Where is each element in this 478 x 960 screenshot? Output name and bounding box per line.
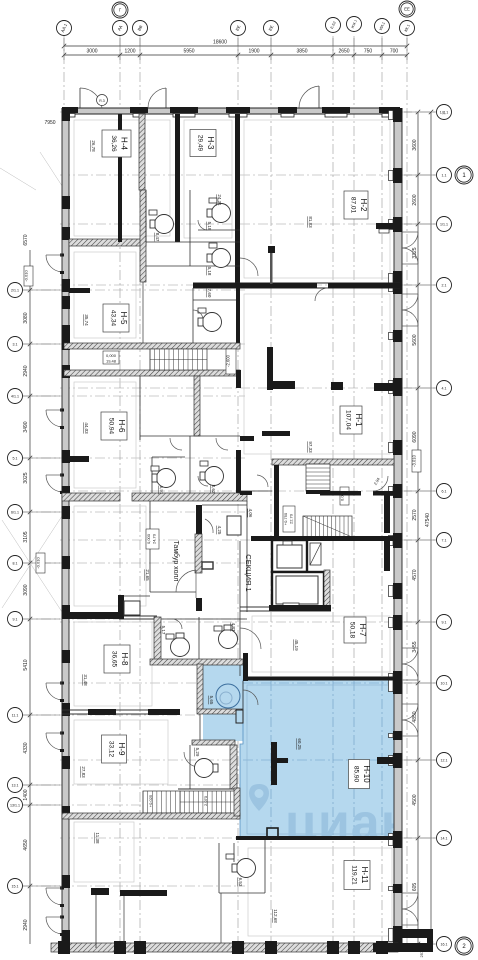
svg-text:Н-3: Н-3 <box>206 137 215 150</box>
svg-text:3455: 3455 <box>412 641 418 652</box>
svg-text:3000: 3000 <box>86 49 97 55</box>
axis circle 4/1.1 left <box>8 389 23 404</box>
hatched wall at axis BB upper <box>139 114 145 190</box>
svg-text:13/1.1: 13/1.1 <box>10 803 20 807</box>
axis circle ИИ.1 <box>375 19 390 34</box>
room H-7 label <box>344 617 366 643</box>
hatched wall right of elevators <box>324 570 330 608</box>
svg-text:13.1: 13.1 <box>12 783 19 787</box>
small storage rooms walls <box>196 505 202 534</box>
svg-text:1/1.1: 1/1.1 <box>440 222 448 226</box>
axis circle Г <box>112 2 128 18</box>
svg-text:5410: 5410 <box>23 659 29 670</box>
core door 2.94 <box>373 476 388 491</box>
left wall piers <box>62 108 71 121</box>
svg-text:97,33: 97,33 <box>308 441 313 453</box>
svg-text:26,78: 26,78 <box>91 140 96 152</box>
cian watermark pin <box>249 784 269 811</box>
shaft walls near right wall <box>384 495 390 533</box>
svg-text:8,47: 8,47 <box>155 233 160 242</box>
wall above H-8 <box>62 612 119 619</box>
svg-text:2.070: 2.070 <box>203 795 208 806</box>
toilet room 4.87 <box>219 630 238 649</box>
horizontal axis grid lines right side <box>60 112 436 944</box>
bottom exterior wall <box>51 943 398 952</box>
wall stub H-1 side <box>236 285 240 345</box>
axis circle 1/1.1 right <box>437 217 452 232</box>
bathroom row above blue walls <box>154 617 161 660</box>
svg-text:15.1: 15.1 <box>12 884 19 888</box>
svg-text:5,18: 5,18 <box>207 222 212 231</box>
room H-5 label <box>103 304 129 332</box>
axis circle АА.1 <box>57 21 72 36</box>
blue unit H-10 small bathroom part <box>203 664 243 741</box>
axis circle 4.1 right <box>437 381 452 396</box>
door arc room 8.62 <box>198 476 208 486</box>
level mark 0.000 core <box>340 487 349 505</box>
toilet room 6.91 <box>157 469 176 488</box>
svg-text:Н-11: Н-11 <box>360 867 369 884</box>
wall below mid stairs <box>64 370 240 376</box>
door frame right of blue column <box>236 710 243 723</box>
svg-text:47540: 47540 <box>425 513 431 527</box>
svg-text:СЕКЦИЯ 1: СЕКЦИЯ 1 <box>244 554 253 591</box>
svg-text:9.1: 9.1 <box>442 620 447 624</box>
svg-text:11.1: 11.1 <box>12 713 19 717</box>
top wall entrance door 2 <box>165 88 167 108</box>
svg-text:119,21: 119,21 <box>351 865 358 885</box>
svg-text:5,29: 5,29 <box>195 748 200 757</box>
hatched wall y493 <box>62 493 120 501</box>
right wall balcony door arcs <box>402 231 418 233</box>
svg-text:3.1: 3.1 <box>13 342 18 346</box>
svg-text:Н-5: Н-5 <box>119 312 128 325</box>
sanitary block walls upper <box>145 190 147 242</box>
toilet room 5.18 a <box>212 204 231 223</box>
svg-text:1/Д.1: 1/Д.1 <box>440 110 448 114</box>
blue small room door <box>243 690 258 705</box>
svg-text:Н-7: Н-7 <box>358 624 367 637</box>
core stairs upper flight <box>306 464 330 491</box>
level box 0.000 19.48 <box>103 351 119 364</box>
svg-text:Н-10: Н-10 <box>362 765 371 783</box>
stairs right hatched wall <box>234 788 240 816</box>
svg-text:6,53: 6,53 <box>238 878 243 887</box>
axis circle ВВ <box>133 21 148 36</box>
blue inset finish line <box>247 685 394 834</box>
blue unit H-10 main area <box>240 680 398 838</box>
svg-text:22.70: 22.70 <box>289 513 294 524</box>
core landing wall <box>320 491 361 496</box>
bottom left interior wall <box>95 888 97 948</box>
H-1 wall stub at axis 4.1 <box>374 383 394 391</box>
svg-text:3025: 3025 <box>23 472 29 483</box>
svg-text:4330: 4330 <box>23 742 29 753</box>
svg-text:6/1.1: 6/1.1 <box>11 510 19 514</box>
duct shaft walls in H-1 <box>267 347 273 390</box>
svg-text:5950: 5950 <box>183 49 194 55</box>
svg-text:6570: 6570 <box>23 234 29 245</box>
svg-text:12.1: 12.1 <box>441 758 448 762</box>
axis circle 8.1 left <box>8 556 23 571</box>
H-2 left wall door arc <box>240 258 258 276</box>
svg-text:-3.010: -3.010 <box>412 454 417 467</box>
axis circle 1 big <box>455 166 473 184</box>
svg-text:8.1: 8.1 <box>13 561 18 565</box>
H-11 bathroom walls <box>218 843 220 893</box>
svg-text:2570: 2570 <box>412 509 418 520</box>
right wall piers <box>393 108 403 122</box>
svg-text:36,65: 36,65 <box>111 651 118 668</box>
svg-text:2650: 2650 <box>338 49 349 55</box>
level box -0.010 b <box>36 553 45 573</box>
svg-text:5.1: 5.1 <box>13 456 18 460</box>
level mark +0.750 / 22.70 <box>283 506 295 532</box>
svg-text:6090: 6090 <box>412 431 418 442</box>
blue bottom wall / H-11 top wall <box>236 836 398 840</box>
svg-text:4,87: 4,87 <box>231 623 236 632</box>
elevator shaft 1 <box>272 540 307 572</box>
svg-text:27,83: 27,83 <box>81 766 86 778</box>
axis circle 13.1 left <box>8 778 23 793</box>
axis circle ЕЕ b <box>264 21 279 36</box>
top overall dimension line 18600 <box>64 45 407 47</box>
svg-text:31,48: 31,48 <box>83 674 88 686</box>
wall above bottom stairs <box>178 788 240 790</box>
sink room 5.18a <box>209 198 217 203</box>
axis circle 9.1 right <box>437 615 452 630</box>
door arc room 5.18a <box>198 220 208 230</box>
room H-4 label <box>102 130 131 157</box>
wall above mid stairs <box>64 343 240 349</box>
svg-text:3080: 3080 <box>23 312 29 323</box>
leader lines left margin <box>40 152 66 192</box>
blue small room right wall <box>243 653 248 681</box>
svg-text:-0.010: -0.010 <box>24 270 29 282</box>
tambour door arc lower <box>195 570 197 598</box>
mid stairs <box>150 349 207 370</box>
svg-text:85,90: 85,90 <box>353 766 360 783</box>
svg-text:1400: 1400 <box>23 789 29 800</box>
bottom right corner walls <box>398 929 433 938</box>
svg-text:3105: 3105 <box>23 531 29 542</box>
H-2 french door open leaf <box>376 223 394 229</box>
room H-3 label <box>190 130 216 157</box>
wall below H-4 <box>69 239 146 246</box>
room H-11 label <box>344 861 370 890</box>
svg-text:107,04: 107,04 <box>345 410 352 430</box>
svg-text:3850: 3850 <box>296 49 307 55</box>
axis circle 2.1 right <box>437 278 452 293</box>
sink room 8.62 <box>200 461 208 466</box>
bottom left room divider <box>123 896 125 943</box>
axis circle 3.1 left <box>8 337 23 352</box>
svg-text:2940: 2940 <box>23 365 29 376</box>
axis circle 1/Д.1 right <box>437 105 452 120</box>
svg-text:5600: 5600 <box>412 334 418 345</box>
corridor door to stair hall <box>257 475 268 487</box>
room H-6 label <box>101 412 127 440</box>
svg-text:3490: 3490 <box>23 421 29 432</box>
H-8 H-9 partition <box>62 709 180 711</box>
wall at axis AA vertical <box>118 114 122 242</box>
corridor wall door arc <box>315 288 328 301</box>
room H-2 label <box>344 191 368 219</box>
wall below stair core <box>251 536 400 541</box>
hatched wall above blue small room <box>150 659 243 665</box>
door arc room 5.17 <box>172 619 182 629</box>
svg-text:24,31: 24,31 <box>217 194 222 206</box>
svg-text:33,12: 33,12 <box>108 741 115 758</box>
svg-text:6.1: 6.1 <box>442 489 447 493</box>
svg-text:750: 750 <box>364 49 373 55</box>
svg-text:3090: 3090 <box>23 584 29 595</box>
corridor wall below elevators <box>240 606 331 608</box>
svg-text:Н-2: Н-2 <box>359 199 368 212</box>
left exterior wall <box>62 108 69 948</box>
axis circle 10.1 right <box>437 676 452 691</box>
axis circle 7.1 right <box>437 533 452 548</box>
storage door box <box>227 516 241 535</box>
room H-1 label <box>340 406 362 434</box>
T wall inside blue <box>271 742 277 785</box>
corridor left wall x240 <box>239 541 241 676</box>
svg-text:+0.750: +0.750 <box>283 512 288 525</box>
svg-text:-0.010: -0.010 <box>36 557 41 569</box>
axis circle 14.1 right <box>437 831 452 846</box>
svg-text:3325: 3325 <box>412 247 418 258</box>
axis circle ЕБ2 <box>326 18 341 33</box>
stair core hatched wall <box>272 459 394 465</box>
room H-10 label <box>349 760 370 789</box>
elevator door panel <box>310 543 321 565</box>
svg-text:1200: 1200 <box>124 49 135 55</box>
axis circle 15.1 left <box>8 879 23 894</box>
svg-text:21,65: 21,65 <box>145 569 150 581</box>
sink room 5.18b <box>209 243 217 248</box>
svg-text:7950: 7950 <box>44 120 55 126</box>
svg-text:3600: 3600 <box>412 139 418 150</box>
wall below bottom stairs <box>62 813 240 819</box>
svg-text:10.1: 10.1 <box>441 681 448 685</box>
sink room 6.53 <box>226 854 234 859</box>
svg-text:81,83: 81,83 <box>308 216 313 228</box>
left dimension line <box>29 250 31 944</box>
axis circle 9.1 left <box>8 612 23 627</box>
svg-text:Н-1: Н-1 <box>354 414 363 427</box>
svg-text:Н-4: Н-4 <box>120 137 129 150</box>
room H-8 label <box>104 645 130 673</box>
column circle R <box>97 95 108 106</box>
right exterior wall <box>394 108 402 944</box>
axis circle 11.1 left <box>8 708 23 723</box>
toilet room 5.17 <box>171 638 190 657</box>
corridor wall x197 upper <box>194 376 200 436</box>
svg-text:29,49: 29,49 <box>197 135 204 152</box>
call button box <box>202 562 213 569</box>
bathroom cluster walls <box>139 376 141 440</box>
svg-text:4500: 4500 <box>412 794 418 805</box>
sink room 4.87 <box>214 626 222 631</box>
toilet room 8.47 <box>155 215 174 234</box>
axis circle ЕЕ a <box>231 21 246 36</box>
sink room 6.91 <box>151 466 159 471</box>
svg-text:2600: 2600 <box>412 194 418 205</box>
svg-text:24,70: 24,70 <box>152 533 157 544</box>
svg-text:44,03: 44,03 <box>84 422 89 434</box>
bathroom door arcs <box>170 438 182 450</box>
svg-text:60,25: 60,25 <box>297 738 302 750</box>
corridor wall left stub <box>69 288 90 293</box>
level box 0.000 24.70 <box>146 529 159 549</box>
room finish inset outlines <box>74 120 392 936</box>
closet door box <box>124 601 140 615</box>
tambour hall walls <box>149 501 151 592</box>
axis circle 5.1 left <box>8 451 23 466</box>
svg-text:ЕЕ: ЕЕ <box>404 7 410 12</box>
top wall piers <box>62 107 78 113</box>
svg-text:1900: 1900 <box>248 49 259 55</box>
svg-text:19,48: 19,48 <box>106 359 117 364</box>
column in H-1 <box>331 382 343 390</box>
svg-text:2.1: 2.1 <box>442 283 447 287</box>
svg-text:7,60: 7,60 <box>207 289 212 298</box>
wall x238 mid segment <box>236 450 241 501</box>
svg-text:4/1.1: 4/1.1 <box>11 394 19 398</box>
top wall entrance door 3 <box>318 86 320 108</box>
svg-text:2940: 2940 <box>23 919 29 930</box>
axis circle 12.1 right <box>437 753 452 768</box>
axis circle 16.1 right <box>437 937 452 952</box>
axis circle 2 big <box>455 937 473 955</box>
svg-text:Н-9: Н-9 <box>117 743 126 756</box>
toilet blue room 5.65 <box>216 684 240 708</box>
svg-text:4,25: 4,25 <box>217 526 222 535</box>
left wall balcony door arcs <box>60 254 64 257</box>
svg-text:4570: 4570 <box>412 569 418 580</box>
svg-text:700: 700 <box>390 49 399 55</box>
sink room 7.60 <box>198 308 206 313</box>
svg-text:11,38: 11,38 <box>95 833 100 844</box>
svg-text:Н-8: Н-8 <box>120 653 129 666</box>
svg-text:87,01: 87,01 <box>350 197 357 214</box>
level mark -2.600 <box>226 349 236 374</box>
axis circle 6.1 right <box>437 484 452 499</box>
bottom wall piers <box>58 941 70 954</box>
horizontal axis grid lines left side <box>23 290 245 886</box>
svg-text:Тамбур холл: Тамбур холл <box>172 540 180 581</box>
toilet room 5.18 b <box>212 249 231 268</box>
svg-text:8,62: 8,62 <box>211 485 216 494</box>
sink room 8.47 <box>149 210 157 215</box>
svg-text:112,68: 112,68 <box>273 909 278 923</box>
core stairs lower flight <box>303 516 352 537</box>
vertical axis grid lines <box>64 36 407 952</box>
svg-text:7.1: 7.1 <box>442 538 447 542</box>
top dimension line <box>64 54 407 56</box>
corridor stub to core <box>240 436 254 441</box>
corridor door to H-7 <box>240 628 261 649</box>
blue top wall <box>248 677 398 681</box>
blue small room left wall <box>197 664 203 710</box>
svg-text:1.1: 1.1 <box>442 173 447 177</box>
svg-text:18600: 18600 <box>213 40 227 46</box>
sanitary block left hatched wall <box>140 190 146 282</box>
closet wall at axis AA <box>118 595 124 619</box>
hall wall y491 <box>240 490 272 492</box>
svg-text:R.3: R.3 <box>99 99 105 103</box>
toilet room 7.60 <box>203 313 222 332</box>
svg-text:4650: 4650 <box>23 839 29 850</box>
column box inside blue <box>267 828 278 838</box>
svg-text:43,34: 43,34 <box>110 310 117 327</box>
axis circle ЕЕ top right <box>399 1 415 17</box>
elevator shaft 2 <box>272 572 324 608</box>
axis circle 6/1.1 left <box>8 505 23 520</box>
svg-text:50,18: 50,18 <box>349 622 356 639</box>
sink room 5.17 <box>166 634 174 639</box>
svg-text:605: 605 <box>412 883 418 892</box>
svg-text:6,91: 6,91 <box>159 486 164 495</box>
svg-text:4,06: 4,06 <box>248 509 253 518</box>
svg-text:-2.600: -2.600 <box>226 354 231 367</box>
stair core left wall <box>274 465 279 536</box>
wall stub right inside blue <box>377 757 396 764</box>
partition stub in H-2 <box>270 252 273 284</box>
svg-text:4.1: 4.1 <box>442 386 447 390</box>
axis circle ЖЖ.1 <box>347 17 362 32</box>
svg-text:5,65: 5,65 <box>209 696 214 705</box>
tambour door arc upper <box>205 519 213 533</box>
toilet room 5.29 <box>195 759 214 778</box>
bathroom 5.29 walls <box>192 740 235 745</box>
axis circle 13/1.1 left <box>8 798 23 813</box>
long corridor wall <box>193 282 400 284</box>
bottom stairs left part <box>143 791 180 813</box>
svg-text:45,19: 45,19 <box>294 639 299 651</box>
svg-text:5,18: 5,18 <box>207 267 212 276</box>
svg-text:+0.025: +0.025 <box>148 794 153 807</box>
hatched wall below blue small room <box>197 709 243 714</box>
top wall entrance door 1 <box>79 88 81 108</box>
top exterior wall <box>62 108 400 114</box>
wall right of H-3 vertical <box>235 114 240 285</box>
svg-text:50,94: 50,94 <box>108 418 115 435</box>
axis lines over blue <box>243 681 398 838</box>
svg-text:5,17: 5,17 <box>161 626 166 635</box>
svg-text:0,000: 0,000 <box>106 353 117 358</box>
wall H-4 H-3 vertical <box>175 114 180 242</box>
left wall stub at axis 5.1 <box>69 456 89 462</box>
wall x238 segment y370 <box>236 370 241 388</box>
level mark -3.010 right margin <box>412 450 421 472</box>
svg-text:0,000: 0,000 <box>146 533 151 544</box>
svg-text:2/1.1: 2/1.1 <box>11 288 19 292</box>
bathroom 5.29 door <box>184 752 199 767</box>
level box -0.010 a <box>24 266 33 286</box>
axis circle 1.1 right <box>437 168 452 183</box>
toilet room 8.62 <box>205 467 224 486</box>
bottom stairs <box>180 791 235 813</box>
svg-text:9.1: 9.1 <box>13 617 18 621</box>
svg-text:14.1: 14.1 <box>441 836 448 840</box>
toilet room 6.53 H-11 <box>237 859 256 878</box>
svg-text:16.1: 16.1 <box>441 942 448 946</box>
right dimension lines <box>417 112 419 944</box>
axis circle АА <box>113 21 128 36</box>
door arc room 7.60 <box>193 310 203 320</box>
svg-text:35,74: 35,74 <box>84 314 89 326</box>
